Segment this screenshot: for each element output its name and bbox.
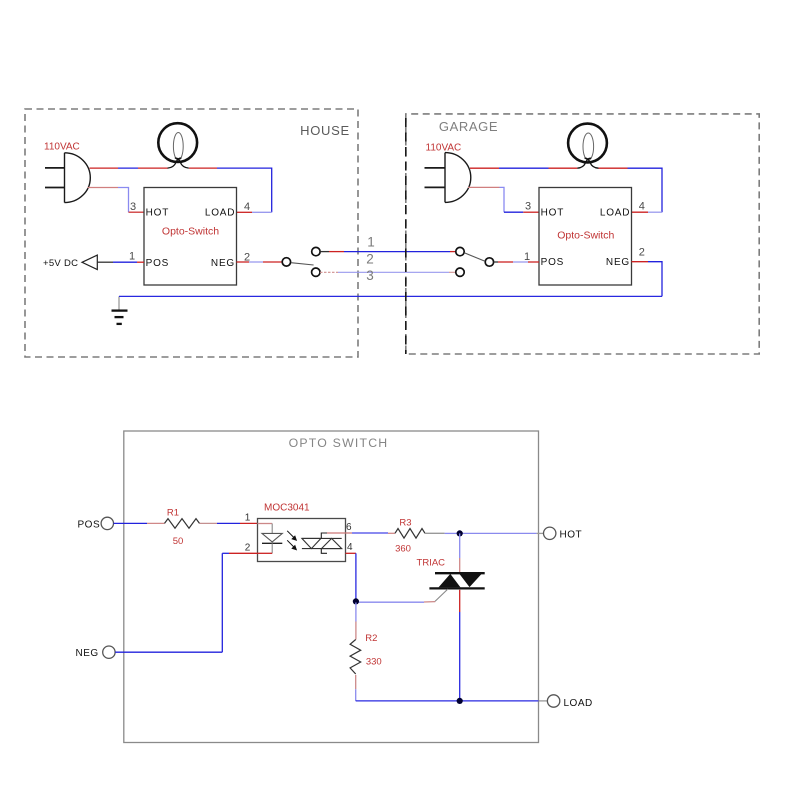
svg-text:2: 2 [245, 543, 251, 554]
svg-text:OPTO SWITCH: OPTO SWITCH [289, 436, 389, 450]
wire garage NEG pin2 down to bus [632, 262, 663, 297]
wire gate to junction [356, 601, 435, 604]
resistor R3 [395, 517, 425, 554]
wire garage POS connector to pin1 [494, 261, 539, 263]
wire POS to R1 [114, 522, 165, 524]
wire MOC pin4 down [346, 553, 356, 600]
junction node (R3 / HOT / triac MT2) [457, 530, 463, 536]
photo-triac inside MOC [302, 533, 342, 553]
wire bottom LOAD rail [356, 700, 548, 702]
LED light arrows [287, 531, 296, 550]
svg-text:NEG: NEG [606, 257, 630, 268]
wire NEG to MOC pin2 [115, 553, 257, 652]
svg-text:HOT: HOT [541, 208, 565, 219]
optocoupler U3 MOC3041 [245, 502, 353, 561]
junction node (LOAD rail) [457, 698, 463, 704]
plug P1 (house 110VAC outlet) [45, 153, 90, 203]
wire 1 (cable) [320, 251, 456, 253]
svg-text:R3: R3 [399, 517, 411, 528]
opto-switch module U2 (garage) [524, 188, 645, 286]
resistor R1 [165, 508, 200, 547]
svg-text:LOAD: LOAD [564, 698, 593, 709]
+5V DC supply [43, 255, 97, 269]
svg-text:GARAGE: GARAGE [439, 119, 498, 134]
svg-text:R1: R1 [167, 508, 179, 519]
svg-text:HOT: HOT [560, 530, 583, 541]
wire house hot top [90, 168, 272, 212]
wire junction down to triac MT2 [459, 533, 461, 572]
svg-text:4: 4 [244, 201, 250, 213]
svg-text:1: 1 [129, 251, 135, 263]
wire house NEG pin2 to connector [237, 261, 283, 263]
LED D1 inside MOC [258, 524, 283, 554]
wire triac MT1 down to LOAD rail [459, 590, 461, 701]
svg-text:3: 3 [130, 201, 136, 213]
node garage wire3 connector [456, 268, 464, 276]
svg-text:2: 2 [639, 247, 645, 259]
resistor R2 [350, 603, 382, 701]
opto switch boundary [124, 431, 539, 743]
svg-text:HOT: HOT [146, 208, 170, 219]
svg-text:4: 4 [347, 542, 353, 553]
svg-text:110VAC: 110VAC [426, 143, 462, 154]
svg-text:Opto-Switch: Opto-Switch [557, 230, 614, 242]
svg-text:LOAD: LOAD [205, 208, 235, 219]
svg-text:+5V DC: +5V DC [43, 258, 78, 269]
svg-text:POS: POS [541, 257, 565, 268]
svg-text:POS: POS [146, 258, 170, 269]
wire garage hot top [470, 168, 662, 212]
svg-text:3: 3 [366, 268, 374, 283]
wire MOC pin6 to R3 [327, 532, 395, 534]
house boundary (dashed) [25, 109, 358, 357]
svg-text:6: 6 [346, 522, 352, 533]
svg-text:50: 50 [173, 536, 184, 547]
svg-text:4: 4 [639, 201, 645, 213]
svg-text:1: 1 [367, 235, 375, 250]
node house NEG connector [282, 258, 290, 266]
svg-text:NEG: NEG [211, 258, 235, 269]
node garage POS connector [485, 258, 493, 266]
wire R3 to HOT [425, 532, 544, 534]
svg-text:R2: R2 [365, 633, 377, 644]
svg-text:NEG: NEG [76, 648, 99, 659]
node house wire3 connector [312, 268, 320, 276]
svg-text:1: 1 [245, 513, 251, 524]
junction node (pin4 / gate / R2) [353, 598, 359, 604]
wire 3 (cable) [320, 271, 456, 273]
switch blade (house side) [291, 263, 314, 265]
node garage wire1 connector [456, 247, 464, 255]
svg-text:110VAC: 110VAC [44, 142, 80, 153]
svg-text:TRIAC: TRIAC [417, 557, 446, 568]
wire ground bus to garage NEG [119, 295, 662, 297]
svg-text:HOUSE: HOUSE [300, 123, 350, 138]
wire garage plug neutral to pin3 [468, 187, 539, 212]
triac Q1 [417, 557, 485, 601]
svg-text:3: 3 [525, 201, 531, 213]
wire R1 to MOC pin1 [200, 522, 258, 524]
svg-text:MOC3041: MOC3041 [264, 502, 310, 513]
svg-text:LOAD: LOAD [600, 208, 630, 219]
terminal NEG [76, 646, 116, 659]
svg-text:360: 360 [395, 543, 411, 554]
wire house plug neutral to pin3 [88, 188, 145, 213]
svg-text:Opto-Switch: Opto-Switch [162, 226, 219, 238]
svg-text:2: 2 [366, 251, 374, 266]
garage boundary (dashed) [406, 114, 759, 354]
lamp L2 (garage) [568, 124, 607, 169]
opto-switch module U1 (house) [129, 188, 250, 286]
plug P2 (garage 110VAC outlet) [425, 153, 471, 203]
terminal POS [78, 517, 114, 530]
svg-text:330: 330 [366, 656, 382, 667]
svg-text:1: 1 [524, 251, 530, 263]
switch blade (garage side) [464, 253, 485, 261]
wire +5V to POS pin1 [97, 261, 144, 263]
terminal HOT [544, 527, 583, 541]
lamp L1 (house) [158, 123, 197, 168]
terminal LOAD [547, 695, 592, 709]
node house wire1 connector [312, 247, 320, 255]
ground [112, 296, 128, 324]
svg-text:POS: POS [78, 520, 101, 531]
